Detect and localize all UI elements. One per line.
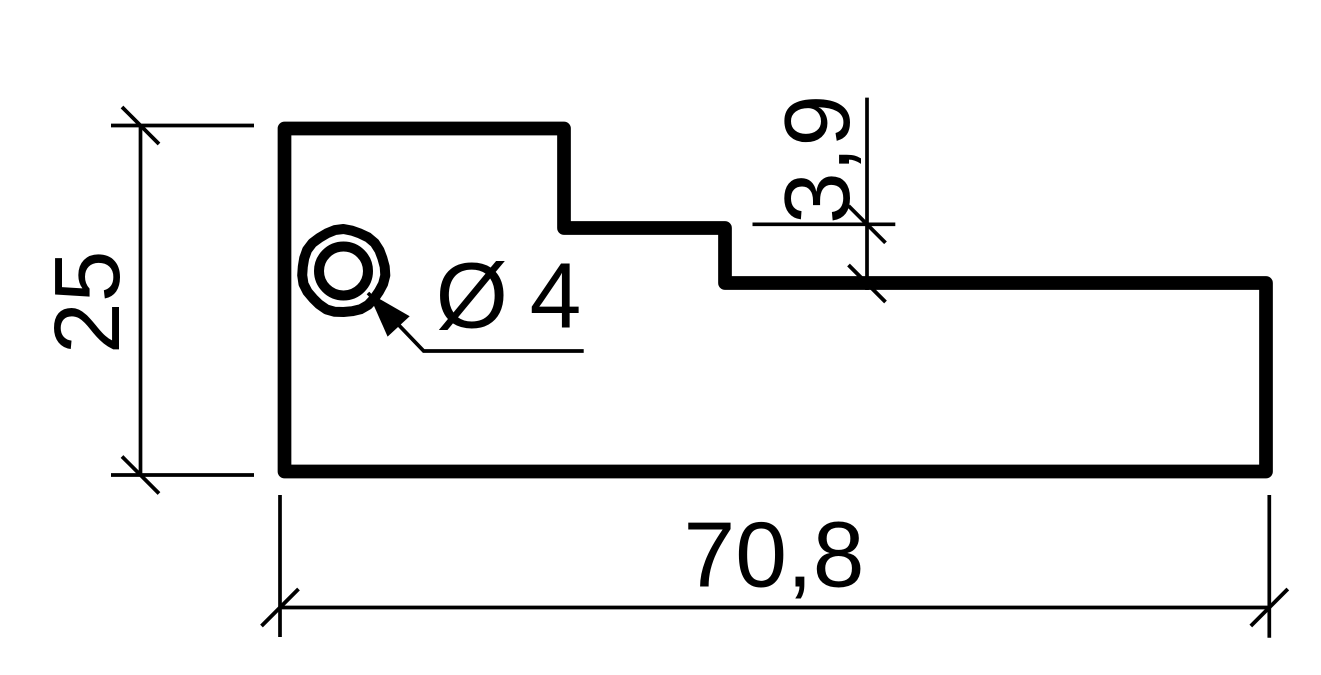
profile outline (stepped cross-section): [285, 129, 1267, 472]
dim 3,9: extension line: [753, 222, 896, 226]
hole outer circle: [302, 229, 385, 312]
dim 70,8: right tick: [1251, 589, 1288, 626]
dim 70,8: right extension line: [1267, 495, 1271, 638]
hole inner circle: [319, 247, 368, 296]
leader arrowhead: [368, 292, 410, 336]
svg-text:4: 4: [530, 244, 582, 348]
dim 70,8: left tick: [262, 589, 299, 626]
dim 70,8: dimension line: [280, 606, 1269, 610]
leader line for hole: [368, 293, 584, 351]
dim 25: top tick: [122, 107, 159, 144]
svg-text:Ø: Ø: [436, 244, 508, 348]
dim 25: top extension line: [111, 124, 254, 128]
dim 25: bottom tick: [122, 457, 159, 494]
dim 25: dimension line: [139, 126, 143, 476]
svg-text:3,9: 3,9: [765, 95, 869, 224]
dim 70,8: left extension line: [278, 495, 282, 637]
svg-text:25: 25: [35, 251, 139, 354]
dim 3,9: lower tick: [849, 265, 886, 302]
svg-text:70,8: 70,8: [683, 503, 864, 607]
dim 3,9: upper tick: [849, 206, 886, 243]
dim 3,9: dimension line: [865, 98, 869, 290]
dim 25: bottom extension line: [111, 473, 254, 477]
